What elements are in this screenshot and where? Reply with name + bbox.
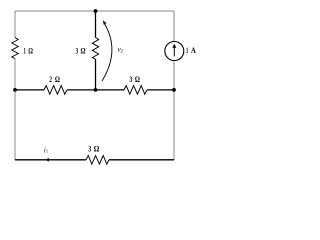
wire top (15,11)-(174,11)	[15, 10, 174, 12]
node dot middle-right (174,90)	[172, 88, 176, 92]
wire left edge upper (15,11)-(15,37.5)	[14, 11, 16, 38]
svg-text:3: 3	[88, 144, 91, 154]
wire right edge upper (174,11)-(174,41.5)	[173, 11, 175, 42]
svg-text:1: 1	[186, 45, 188, 55]
svg-text:Ω: Ω	[81, 45, 86, 55]
svg-text:1: 1	[46, 149, 48, 154]
node dot middle-center (95.5,90)	[94, 88, 98, 92]
resistor R 1 Ohm (left edge, vertical)	[12, 38, 18, 59]
wire middle horizontal segment a (15,90)-(44,90)	[15, 89, 44, 91]
resistor R 3 Ohm (middle, vertical)	[92, 38, 98, 60]
svg-text:3: 3	[76, 45, 79, 55]
current arrow i1 on bottom wire	[46, 158, 49, 162]
voltage arc v2	[102, 22, 112, 81]
wire mid-vertical lower (95.5,59.2)-(95.5,90)	[95, 59, 97, 90]
wire mid-vertical upper (95.5,11)-(95.5,37.5)	[95, 11, 97, 38]
wire left edge lower (15,58.5)-(15,160)	[14, 59, 16, 161]
svg-text:A: A	[191, 45, 196, 55]
svg-text:Ω: Ω	[94, 144, 100, 154]
wire bottom segment a (15,159.8)-(86,159.8)	[15, 159, 86, 161]
svg-text:1: 1	[24, 46, 26, 56]
node dot middle-left (15,90)	[13, 88, 17, 92]
wire middle horizontal segment b (67,90)-(124,90)	[67, 89, 124, 91]
resistor R 3 Ohm (bottom horizontal)	[86, 156, 109, 165]
resistor R 2 Ohm (horizontal)	[44, 86, 67, 95]
node dot top (95.5,11)	[94, 9, 98, 13]
resistor R 3 Ohm (middle horizontal)	[124, 86, 147, 95]
wire right edge lower (174,60.5)-(174,160)	[173, 61, 175, 161]
svg-text:3: 3	[129, 74, 132, 84]
wire middle horizontal segment c (147,90)-(174,90)	[147, 89, 174, 91]
arrowhead of v2 arc	[103, 20, 107, 25]
current source U1 circle	[165, 42, 184, 61]
svg-text:2: 2	[49, 74, 52, 84]
svg-text:Ω: Ω	[135, 74, 140, 84]
wire bottom segment b (109,159.8)-(174,159.8)	[109, 159, 174, 161]
svg-text:Ω: Ω	[28, 46, 33, 56]
svg-text:Ω: Ω	[55, 74, 60, 84]
current source arrow	[173, 47, 175, 57]
